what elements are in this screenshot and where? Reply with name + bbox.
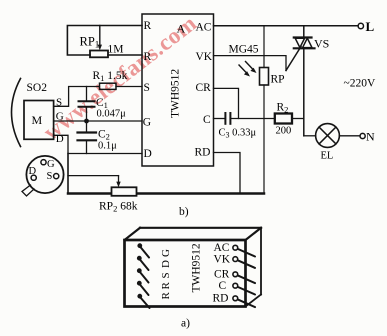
svg-text:TWH9512: TWH9512 bbox=[170, 69, 182, 118]
wire C1 bottom branch bbox=[86, 107, 88, 121]
svg-text:C: C bbox=[203, 114, 211, 126]
RP2 wiper arrowhead bbox=[116, 182, 120, 188]
svg-text:N: N bbox=[366, 130, 375, 144]
capacitor C1 plates bbox=[79, 100, 95, 102]
svg-text:R: R bbox=[160, 282, 172, 290]
svg-text:MG45: MG45 bbox=[229, 44, 259, 56]
package front face bbox=[125, 240, 246, 307]
terminal L circle bbox=[358, 23, 363, 28]
photoresistor RP MG45 body bbox=[260, 68, 269, 86]
svg-text:S: S bbox=[144, 82, 150, 94]
svg-text:C3 0.33μ: C3 0.33μ bbox=[219, 128, 257, 140]
triac VS cathode wire down bbox=[303, 48, 305, 136]
svg-text:VK: VK bbox=[196, 51, 213, 63]
terminal N circle bbox=[360, 133, 365, 138]
MG45 light arrow 2 bbox=[246, 62, 255, 72]
wire RP1 wiper bbox=[99, 26, 101, 48]
wire D net (mic D to D pin) bbox=[54, 135, 142, 153]
lamp EL cross bbox=[319, 127, 336, 144]
package pin dot S bbox=[54, 174, 59, 179]
package pin dot G bbox=[41, 160, 46, 165]
wire RD pin jog to bottom rail bbox=[214, 153, 241, 194]
svg-text:200: 200 bbox=[276, 126, 292, 137]
svg-text:G: G bbox=[143, 117, 151, 129]
svg-text:D: D bbox=[56, 133, 64, 145]
svg-text:RD: RD bbox=[213, 293, 229, 305]
transistor package bottom-view circle bbox=[26, 156, 63, 193]
wire D down-leg to bottom rail bbox=[67, 154, 69, 194]
package top-left diagonal bbox=[125, 228, 141, 240]
op-amp U1 IC TWH9512 body bbox=[142, 14, 214, 166]
svg-text:0.047μ: 0.047μ bbox=[97, 109, 127, 120]
svg-text:C: C bbox=[219, 280, 227, 292]
package left pins (5 slanted with heads) bbox=[137, 243, 150, 308]
package pin dot D bbox=[31, 175, 36, 180]
svg-text:TWH9512: TWH9512 bbox=[191, 243, 203, 292]
svg-text:~220V: ~220V bbox=[344, 78, 376, 90]
svg-text:D: D bbox=[29, 166, 37, 177]
resistor R2 body bbox=[275, 114, 292, 124]
package top back edge bbox=[140, 227, 261, 229]
wire C2 bottom branch bbox=[86, 140, 88, 153]
svg-text:R: R bbox=[160, 292, 172, 300]
microphone SO2 shell arc bbox=[12, 79, 21, 147]
svg-text:RP: RP bbox=[271, 74, 285, 86]
wire G net (mic G to G pin) bbox=[54, 120, 142, 122]
svg-text:SO2: SO2 bbox=[27, 82, 48, 94]
triac VS right triangle bbox=[303, 38, 312, 47]
MG45 light arrow 1 bbox=[239, 65, 248, 75]
lamp EL circle bbox=[316, 124, 340, 148]
wire AC pin to L terminal bbox=[214, 25, 359, 27]
wire VK pin to gate bbox=[214, 56, 287, 71]
svg-text:AC: AC bbox=[196, 22, 212, 34]
svg-text:G: G bbox=[56, 110, 64, 122]
svg-text:b): b) bbox=[179, 206, 189, 218]
svg-text:CR: CR bbox=[214, 269, 230, 281]
wire C1 top branch bbox=[86, 87, 88, 102]
svg-text:D: D bbox=[160, 260, 172, 268]
triac VS anode wire bbox=[303, 26, 305, 38]
svg-text:G: G bbox=[47, 159, 55, 170]
wire RP2 wiper tap bbox=[68, 175, 119, 177]
package bottom-right diagonal bbox=[246, 295, 262, 307]
package back-right edge bbox=[260, 228, 262, 295]
svg-text:CR: CR bbox=[196, 82, 212, 94]
wire RP1 to R pin bbox=[108, 54, 142, 56]
junction dot node G/C1/C2 bbox=[84, 119, 89, 124]
svg-text:L: L bbox=[366, 19, 375, 34]
wire R1 to S pin bbox=[116, 86, 142, 88]
potentiometer RP2 body bbox=[112, 187, 137, 196]
wire C pin to C3 bbox=[214, 118, 226, 120]
resistor RP1 body bbox=[90, 51, 108, 58]
triac VS bottom bar bbox=[294, 47, 315, 49]
package a) 3D body bbox=[125, 228, 262, 307]
svg-text:S: S bbox=[56, 97, 62, 109]
RP2 wiper arrow shaft bbox=[118, 176, 120, 184]
package top-right diagonal bbox=[246, 228, 262, 240]
wire S net (mic S to R1) bbox=[54, 87, 100, 107]
svg-text:VK: VK bbox=[214, 254, 231, 266]
svg-text:0.1μ: 0.1μ bbox=[98, 140, 117, 151]
wire lamp to N terminal bbox=[339, 135, 360, 137]
package right pins (5 circles with slanted leads) bbox=[233, 245, 255, 307]
svg-text:R1 1.5k: R1 1.5k bbox=[93, 70, 128, 83]
wire C3 to R2 bbox=[230, 118, 274, 120]
capacitor C3 plates bbox=[224, 113, 226, 124]
svg-text:R: R bbox=[144, 20, 152, 32]
RP1 wiper arrowhead bbox=[98, 45, 102, 51]
triac VS left triangle bbox=[295, 38, 304, 47]
svg-text:1M: 1M bbox=[108, 44, 124, 56]
svg-text:A: A bbox=[177, 22, 186, 36]
wire C2 top branch bbox=[86, 121, 88, 132]
svg-text:a): a) bbox=[181, 318, 190, 330]
wire R2 to triac cathode line bbox=[292, 118, 304, 120]
wire to lamp EL bbox=[304, 135, 316, 137]
svg-text:R: R bbox=[144, 51, 152, 63]
svg-text:S: S bbox=[160, 272, 172, 278]
wire triac gate diagonal bbox=[286, 47, 301, 71]
svg-text:G: G bbox=[160, 249, 172, 257]
svg-text:EL: EL bbox=[321, 151, 334, 162]
triac VS top bar bbox=[294, 36, 312, 38]
svg-text:AC: AC bbox=[214, 242, 230, 254]
svg-text:M: M bbox=[32, 113, 43, 127]
bottom rail wire bbox=[68, 192, 264, 195]
wire CR pin jog to C net bbox=[214, 88, 239, 118]
capacitor C2 plates bbox=[78, 131, 97, 133]
microphone M body bbox=[24, 101, 54, 140]
svg-text:RP2 68k: RP2 68k bbox=[99, 201, 138, 214]
resistor R1 body bbox=[100, 83, 117, 89]
package tab bbox=[22, 185, 34, 196]
wire photoresistor branch vertical bbox=[263, 26, 265, 68]
svg-text:VS: VS bbox=[314, 37, 329, 51]
svg-text:RD: RD bbox=[195, 147, 211, 159]
svg-text:S: S bbox=[47, 171, 53, 182]
wire top loop (R pin feedback) bbox=[67, 26, 142, 56]
svg-text:D: D bbox=[144, 148, 152, 160]
